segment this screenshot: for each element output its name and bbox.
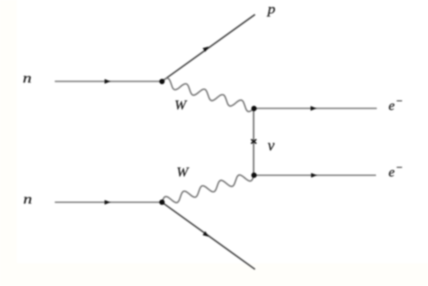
svg-text:p: p [266, 3, 275, 18]
svg-text:n: n [23, 193, 32, 208]
svg-text:n: n [23, 72, 32, 87]
svg-text:e: e [389, 99, 395, 114]
svg-text:−: − [396, 162, 403, 174]
svg-text:ν: ν [268, 137, 275, 154]
svg-text:−: − [396, 96, 403, 108]
svg-text:W: W [175, 99, 188, 114]
svg-text:e: e [389, 166, 395, 181]
svg-text:W: W [177, 165, 190, 180]
